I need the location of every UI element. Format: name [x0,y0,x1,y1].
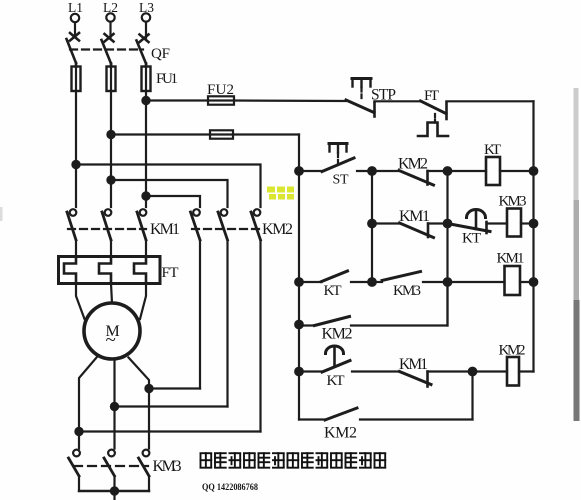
pushbutton ST (start, NO) [322,144,354,172]
node rail-ST junction [295,167,303,175]
fuse FU2 upper [208,96,234,104]
node rail KM2 branch4 [295,321,303,329]
wire rail to KM2 contact [299,324,315,326]
wire KM1 contact to node X [428,222,448,224]
breaker QF pole 2 [102,34,114,67]
caption fake CJK title [200,452,387,468]
wire rail bottom to KM2 contact branch6 [299,418,325,420]
node L2 terminal [106,13,114,38]
node junction phase3 to FU2 [142,97,149,104]
wire phase1 to KM2 pole 6 [76,165,261,208]
svg-text:ST: ST [333,173,349,188]
svg-text:KM2: KM2 [499,343,526,359]
wire star point bar [79,490,149,492]
svg-text:KT: KT [327,373,345,389]
breaker QF pole 1 [67,33,80,67]
wire KM2 coil to right rail [519,370,534,372]
wire FT to motor V [111,284,112,304]
svg-text:KM2: KM2 [324,425,357,442]
wire KM1 coil to right rail [520,281,534,283]
FT element 1 [64,257,76,284]
wire phase2 down to KM1 [110,91,112,207]
wire motor bottom-mid to KM3 pole2 [113,359,115,449]
watermark yellow [267,187,294,200]
wire KM2 contact to node Y [360,418,473,420]
svg-text:KM2: KM2 [322,326,353,343]
svg-text:FU2: FU2 [207,82,234,98]
wire motor bottom-left to KM3 pole1 [79,358,97,449]
QF linkage dashed [70,48,143,50]
node junction motor-left delta [75,428,82,435]
FT element 3 [134,257,146,284]
wire to fuse FU2 lower [111,133,210,135]
svg-text:KM1: KM1 [399,208,430,225]
wire phase3 down to KM1 [145,91,147,207]
wire KT delayed to KM3 coil [487,222,508,224]
node A branch3 [368,278,376,286]
KM1 linkage dashed [68,228,146,230]
contactor KM2 pole 6 [251,209,261,431]
motor M [84,303,140,359]
svg-text:~: ~ [106,330,116,351]
node X branch2 [444,220,452,228]
contactor KM3 pole 3 [139,450,150,491]
wire node X to KM1 coil [448,281,505,283]
node junction phase1 feed KM2 pole6 [72,161,79,168]
svg-text:FU1: FU1 [156,71,178,87]
node Y [469,368,477,376]
contact KM2 NC (branch 1) [399,171,434,186]
contactor KM3 pole 2 [104,450,115,491]
wire A to KM1 contact [372,222,400,224]
contactor KM1 pole 2 [102,209,111,256]
contact KT delayed NC (branch 5) [322,346,350,372]
fuse FU1 pole 3 [142,67,151,92]
svg-text:L3: L3 [139,0,154,15]
svg-text:STP: STP [371,87,396,104]
contact KM2 NO (branch 4) [315,317,350,326]
node X top [444,167,452,175]
contactor KM2 pole 4 [191,209,201,388]
coil KM3 [507,209,521,237]
contactor KM1 pole 1 [67,209,76,256]
node junction phase2 to lower control fuse [107,131,114,138]
fuse FU2 lower [210,130,233,138]
contact KM1 NC (branch 5) [400,372,432,387]
wire node X to KT coil [448,170,487,172]
svg-text:QF: QF [151,46,170,62]
wire delta mid to KM2 pole5 bottom [115,405,228,407]
wire KM1 contact to node Y [428,370,473,372]
wire node A to KM2 contact [372,170,399,172]
coil KT [486,157,500,185]
svg-text:L2: L2 [103,0,118,15]
svg-text:KM3: KM3 [153,458,182,475]
thermal relay FT box [59,257,161,284]
svg-text:FT: FT [162,265,179,281]
node right rail KM3 [530,220,538,228]
contact KM1 NC (branch 2) [400,223,434,238]
wire node X vertical [446,171,448,326]
wire node Y vertical [471,372,473,420]
contact KM3 NO (branch 3) [382,272,421,281]
wire KT delayed to KM1 contact [352,370,400,372]
contactor KM1 pole 3 [137,209,146,256]
wire KM3 coil to right rail [521,222,534,224]
node X branch3 [444,278,452,286]
node junction phase3 feed KM2 pole4 [142,192,149,199]
contact KT NO (branch 3) [322,271,348,282]
wire rail to KT contact [299,281,322,283]
wire delta left to KM2 pole6 bottom [79,430,261,432]
coil KM1 [505,266,521,295]
wire phase2 to KM2 pole 5 [111,180,228,207]
svg-text:KM2: KM2 [398,156,428,173]
wire left control rail [298,135,300,420]
svg-text:KM3: KM3 [393,283,421,299]
wire STP to FT contact [375,100,421,102]
contact KM2 NO (branch 6) [325,408,357,420]
wire KT coil to right rail [500,170,534,172]
scan streak right edge [574,88,580,421]
contactor KM2 pole 5 [218,209,228,406]
wire FT to motor W [140,284,146,320]
wire KM2 contact up to node X [351,282,448,326]
wire delta right to KM2 pole4 bottom [149,387,200,389]
wire lower fuse to left control rail [233,133,299,135]
wire star stub [113,491,115,500]
svg-text:KT: KT [462,231,481,247]
wire FU2 to STP [234,99,346,102]
svg-text:KT: KT [484,142,501,158]
wire right rail [532,101,534,371]
svg-text:KM1: KM1 [497,251,525,267]
wire to fuse FU2 upper [146,99,208,101]
wire ST to node A [357,170,372,172]
wire node Y to KM2 coil [473,370,508,372]
contact KT delayed (branch 2) [448,210,491,234]
svg-text:KM2: KM2 [262,221,293,238]
wire phase1 down to KM1 [75,91,77,207]
fuse FU1 pole 1 [72,67,81,92]
svg-text:KM1: KM1 [399,356,428,373]
node right rail KT [530,167,538,175]
wire FT contact to right rail [447,100,534,102]
pushbutton STP (stop, NC) [346,79,375,117]
FT NC contact (overload) [418,101,448,136]
node star point [111,487,118,494]
contactor KM3 pole 1 [69,450,80,491]
wire rail to KT delayed [299,370,322,372]
node junction motor-mid delta [111,403,118,410]
wire node A vertical [371,171,373,282]
wire rail to ST [299,170,322,172]
wire KM2 contact to node X [428,170,448,172]
FT element 2 [99,257,111,284]
wire KT contact to node A [351,281,372,283]
node L1 terminal [71,14,79,37]
wire KM3 contact to node X [423,281,448,283]
svg-text:FT: FT [424,88,439,104]
svg-text:KM3: KM3 [499,194,527,210]
coil KM2 [507,357,519,386]
fuse FU1 pole 2 [107,67,116,92]
wire phase3 to KM2 pole 4 [146,196,200,207]
svg-text:KT: KT [324,283,342,299]
wire A to KM3 contact [372,281,382,283]
svg-text:KM1: KM1 [150,221,180,238]
node L3 terminal [142,13,150,39]
node junction phase2 feed KM2 pole5 [107,176,114,183]
wire FT to motor U [76,284,85,320]
wire motor bottom-right to KM3 pole3 [129,358,150,449]
node A branch2 [368,220,376,228]
node rail KT branch3 [295,278,303,286]
scan mark left edge [0,207,3,221]
svg-text:QQ 1422086768: QQ 1422086768 [202,483,258,493]
KM3 linkage dashed [74,465,148,467]
node A after start [368,167,376,175]
node rail KT branch5 [295,368,303,376]
KM2 linkage dashed [192,228,260,230]
svg-text:L1: L1 [68,0,83,15]
node junction motor-right delta [145,385,152,392]
node right rail KM1 [530,278,538,286]
breaker QF pole 3 [137,35,149,67]
